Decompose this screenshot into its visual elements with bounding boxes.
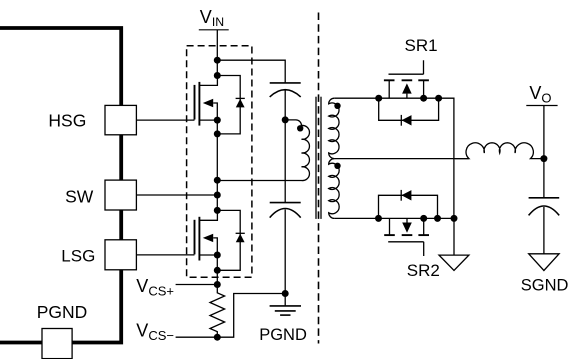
wire: rail to current sense <box>216 255 218 285</box>
node VCS- junction <box>214 334 221 341</box>
wire: LSG gate lead <box>136 254 194 256</box>
transistor SR2 sync rectifier <box>384 218 429 256</box>
diode D4 body diode of SR2 with loop wire <box>379 190 438 219</box>
dashed box around bridge FETs <box>187 46 252 277</box>
wire: secondary top to SR1 and down <box>334 98 454 218</box>
wire: secondary bottom to SR2 <box>334 217 454 219</box>
pin SW square <box>105 180 136 210</box>
resistor R1 current sense <box>210 285 225 338</box>
wire: VCS- lead <box>176 336 218 338</box>
wire: SW pin lead <box>136 194 217 196</box>
wire: C2 to PGND <box>284 210 286 306</box>
VIN supply bar <box>199 29 229 31</box>
node VIN-clamp junction <box>214 57 221 64</box>
transistor Q2 low-side MOSFET <box>195 210 218 260</box>
svg-text:SW: SW <box>65 187 94 207</box>
wire: switch-node rail <box>216 120 218 210</box>
node SW junction <box>214 192 221 199</box>
transformer T1 secondary winding upper <box>329 98 339 158</box>
svg-text:LSG: LSG <box>61 247 95 266</box>
ground PGND earth symbol <box>270 306 301 315</box>
node SR2 output junction <box>451 215 458 222</box>
wire: VO rail <box>543 106 545 198</box>
inductor L1 <box>455 143 544 159</box>
wire: VCS+ lead <box>176 284 218 286</box>
wire: clamp branch top <box>217 60 285 83</box>
VO supply bar <box>526 105 557 107</box>
node Q2 drain junction <box>214 207 221 214</box>
node SR2 right junction <box>434 215 441 222</box>
node T1 secondary upper phase dot <box>334 103 340 109</box>
transformer T1 secondary winding lower <box>329 159 339 219</box>
node VCS+ junction <box>214 281 221 288</box>
ground triangle at SR common <box>439 255 469 270</box>
node PGND junction <box>282 290 289 297</box>
node primary return junction <box>214 177 221 184</box>
node D1 anode junction <box>214 130 221 137</box>
transformer T1 core <box>315 97 317 219</box>
wire: clamp cap to primary <box>284 90 286 203</box>
diode D3 body diode of SR1 with loop wire <box>379 98 439 126</box>
svg-text:SR1: SR1 <box>405 36 438 55</box>
wire: C3 to SGND <box>543 207 545 254</box>
capacitor C3 output <box>529 198 560 216</box>
wire: VIN rail top <box>216 30 218 76</box>
node SR2 gate-side junction <box>420 215 427 222</box>
transistor Q1 high-side MOSFET <box>195 76 218 126</box>
node SR1 left junction <box>375 95 382 102</box>
wire: HSG gate lead <box>137 119 195 121</box>
node VO junction <box>540 155 547 162</box>
svg-text:SR2: SR2 <box>407 261 440 280</box>
wire: center tap to inductor <box>334 158 469 160</box>
node Q1 drain junction <box>214 72 221 79</box>
svg-text:HSG: HSG <box>48 111 86 131</box>
pin HSG square <box>105 105 136 134</box>
pin LSG square <box>105 240 136 270</box>
node SR2 left junction <box>375 215 382 222</box>
isolation boundary dashed line <box>318 13 320 344</box>
capacitor C2 primary series <box>270 203 301 218</box>
node Q1 source junction <box>214 117 221 124</box>
svg-text:PGND: PGND <box>259 326 307 344</box>
wire: SR common to ground <box>453 218 455 255</box>
transistor SR1 sync rectifier <box>384 60 429 98</box>
transformer T1 primary winding <box>217 120 309 181</box>
pin PGND square <box>42 329 72 359</box>
node primary top junction <box>282 116 289 123</box>
ground triangle SGND <box>529 254 559 271</box>
node T1 secondary lower phase dot <box>334 163 340 169</box>
controller IC outline (thick) <box>0 28 121 343</box>
node T1 primary phase dot <box>297 125 303 131</box>
node D2 anode junction <box>214 267 221 274</box>
wire: sense resistor to PGND link <box>217 294 285 338</box>
diode D1 body diode of Q1 with branch wire <box>217 76 245 134</box>
node SR1 right junction <box>435 95 442 102</box>
svg-text:PGND: PGND <box>37 302 88 322</box>
diode D2 body diode of Q2 with branch wire <box>217 210 245 270</box>
node Q2 source junction <box>214 252 221 259</box>
node SR1 gate-side junction <box>420 95 427 102</box>
svg-text:SGND: SGND <box>521 277 569 295</box>
capacitor C1 clamp <box>270 83 301 97</box>
